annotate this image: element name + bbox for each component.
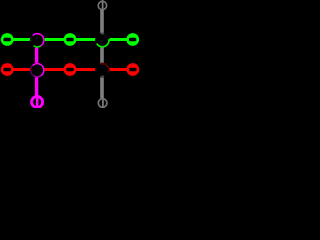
- wire: gray net vertical trace: [100, 9, 104, 99]
- pin P6 (red, right): [126, 63, 139, 76]
- pin P1 (green, left): [1, 33, 14, 46]
- junction J1 (green/magenta net): [30, 33, 45, 48]
- junction J2 (red/magenta net): [30, 63, 45, 78]
- wire: magenta pin stub through bottom via: [36, 95, 39, 108]
- junction J4 (red/gray net): [95, 63, 110, 78]
- wire: gray pin stub through top via: [102, 0, 104, 10]
- pin P4 (red, left): [1, 63, 14, 76]
- wire: magenta net vertical trace: [35, 40, 38, 97]
- pin P3 (green, right): [126, 33, 139, 46]
- via V3 (magenta, bottom): [32, 97, 43, 108]
- wire: green net horizontal trace: [5, 38, 135, 41]
- wire: gray pin stub through bottom via: [102, 97, 104, 108]
- pin P5 (red, middle): [64, 63, 77, 76]
- background: [0, 0, 141, 108]
- junction J3 (green/gray net): [95, 33, 110, 48]
- via V1 (gray, top): [98, 1, 106, 9]
- wire: red net horizontal trace: [5, 68, 135, 71]
- via V2 (gray, bottom): [98, 99, 107, 108]
- pin P2 (green, middle): [64, 33, 77, 46]
